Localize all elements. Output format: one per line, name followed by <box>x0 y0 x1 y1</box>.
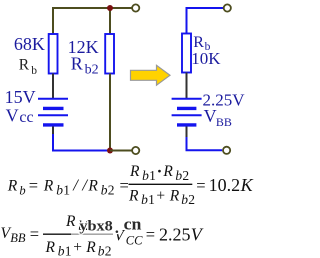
svg-text:b: b <box>101 182 108 197</box>
svg-text:CC: CC <box>126 234 143 248</box>
terminal circle bottom-left circuit <box>132 147 139 154</box>
svg-text:b: b <box>19 183 25 197</box>
battery VBB plate short - <box>177 107 196 110</box>
node junction dot bottom <box>107 148 113 154</box>
svg-text:=: = <box>29 176 38 195</box>
svg-text:R: R <box>128 187 139 204</box>
svg-text:1: 1 <box>148 192 155 207</box>
svg-text:R: R <box>85 239 96 256</box>
svg-text:b: b <box>175 168 182 183</box>
svg-text:10K: 10K <box>191 49 221 68</box>
svg-text:+: + <box>156 187 165 204</box>
svg-text:BB: BB <box>216 115 232 129</box>
svg-text:R: R <box>71 54 83 74</box>
svg-text:R: R <box>19 57 30 74</box>
wire 12K branch upper <box>109 8 111 35</box>
svg-text:=: = <box>196 176 205 195</box>
svg-text:R: R <box>162 163 173 180</box>
svg-text:R: R <box>129 163 140 180</box>
battery Vcc plate short 2 <box>43 123 64 126</box>
svg-text:2: 2 <box>182 168 189 183</box>
svg-text:b: b <box>58 244 65 258</box>
battery VBB plate short 2 <box>177 123 196 126</box>
svg-text:b2: b2 <box>85 62 99 77</box>
svg-text:+: + <box>73 239 82 256</box>
battery Vcc plate long 2 <box>38 114 68 116</box>
arrow (yellow, between circuits) <box>131 65 171 85</box>
svg-text:2: 2 <box>108 182 115 197</box>
svg-text:cn: cn <box>124 215 142 234</box>
svg-text:V: V <box>204 106 217 126</box>
battery Vcc plate long + <box>38 98 68 100</box>
svg-text:=: = <box>30 224 39 243</box>
svg-text:·: · <box>157 161 163 180</box>
resistor Rb 10K body <box>182 34 191 73</box>
terminal circle top-left circuit <box>132 4 139 11</box>
svg-text:2: 2 <box>188 192 195 207</box>
svg-text:ybx8: ybx8 <box>79 218 113 235</box>
wire below battery right (dark stub) <box>186 127 188 138</box>
wire below 68K resistor (dark) <box>52 74 54 99</box>
svg-text:R: R <box>87 178 98 195</box>
svg-text:cc: cc <box>19 109 33 126</box>
watermark ybx8.cn <box>79 215 142 238</box>
svg-text:1: 1 <box>149 168 156 183</box>
svg-text:b: b <box>98 244 105 258</box>
terminal circle bottom-right circuit <box>223 147 230 154</box>
battery VBB plate long 2 <box>172 114 202 116</box>
node junction dot top <box>107 5 113 11</box>
wire left branch upper <box>52 7 54 35</box>
svg-text:2.25: 2.25 <box>159 224 191 244</box>
wire top rail left circuit <box>53 7 132 9</box>
equation 2: VBB = Rb2/(Rb1+Rb2) Vcc = 2.25V <box>1 213 204 258</box>
wire right circuit top (blue L) <box>187 8 224 35</box>
svg-text:1: 1 <box>63 182 70 197</box>
svg-text:=: = <box>146 225 155 244</box>
wire 12K branch lower (olive) <box>109 74 111 151</box>
svg-text:R: R <box>45 239 56 256</box>
svg-text:=: = <box>120 176 129 195</box>
svg-text:.: . <box>115 220 119 237</box>
fraction 1 bar <box>129 183 193 185</box>
svg-text:R: R <box>169 187 180 204</box>
svg-text:68K: 68K <box>14 34 45 54</box>
wire below 10K resistor (dark) <box>186 73 188 99</box>
svg-text:b: b <box>181 192 188 207</box>
wire to bottom-left terminal <box>110 150 132 152</box>
svg-text:R: R <box>7 178 18 195</box>
resistor Rb 68K body <box>49 34 58 74</box>
svg-text:R: R <box>43 178 54 195</box>
svg-text:15V: 15V <box>5 87 36 107</box>
battery Vcc plate short - <box>43 107 64 110</box>
svg-text:2: 2 <box>105 244 112 258</box>
battery VBB plate long + <box>172 98 202 100</box>
svg-text:b: b <box>142 168 149 183</box>
svg-text:1: 1 <box>65 244 72 258</box>
wire to bottom-right terminal (blue L) <box>187 137 223 150</box>
terminal circle top-right circuit <box>224 4 231 11</box>
svg-text:b: b <box>31 65 37 77</box>
svg-text:K: K <box>240 175 254 195</box>
svg-text:10.2: 10.2 <box>209 175 241 195</box>
svg-text:BB: BB <box>10 231 26 245</box>
wire battery to bottom node (blue L) <box>53 134 110 151</box>
fraction 2 bar <box>43 233 71 235</box>
svg-text:b: b <box>141 192 148 207</box>
wire below battery (dark stub) <box>52 127 54 135</box>
resistor Rb2 12K body <box>105 34 114 74</box>
svg-text:b: b <box>56 182 63 197</box>
svg-text:R: R <box>65 213 76 230</box>
svg-text:V: V <box>6 106 19 126</box>
equation 1: Rb = Rb1 // Rb2 = Rb1.Rb2/(Rb1+Rb2) = 10.2K <box>7 161 254 207</box>
